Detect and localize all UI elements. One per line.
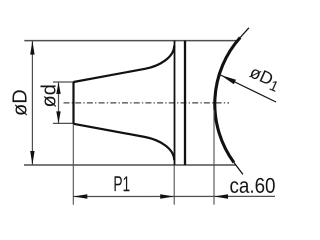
sphere tangent run-out bottom <box>234 163 243 175</box>
arrowhead oD top <box>30 41 34 55</box>
extension line ca.60 (sphere vertex) <box>213 110 215 205</box>
extension tick od top <box>53 81 74 83</box>
arrowhead P1 left <box>73 194 87 198</box>
arrowhead od top <box>56 82 60 94</box>
dimension line oD <box>31 41 33 165</box>
outline: shank left end face <box>72 82 74 124</box>
arrowhead P1 right <box>160 194 174 198</box>
svg-text:ca.60: ca.60 <box>229 174 275 198</box>
arrowhead leader oD1 <box>221 75 237 84</box>
outline: concave spherical face oD1 <box>215 38 240 163</box>
outline: top flat of head (diameter oD extent) <box>24 40 238 42</box>
arrowhead od bottom <box>56 111 60 123</box>
extension line P1 left <box>72 124 74 205</box>
dimension line od <box>58 82 60 123</box>
svg-text:P1: P1 <box>113 171 130 196</box>
outline: head right face <box>184 41 186 165</box>
svg-text:øD1: øD1 <box>245 62 283 96</box>
arrowhead ca.60 <box>214 194 228 198</box>
dimension line P1 / ca.60 <box>73 195 275 197</box>
centerline (axis) <box>64 102 230 104</box>
extension line P1 right <box>173 165 175 205</box>
leader line oD1 <box>221 75 277 102</box>
svg-text:ød: ød <box>39 84 61 107</box>
outline: shank bottom taper with bell fillet <box>74 124 175 161</box>
outline: shank top taper with bell fillet <box>74 46 175 83</box>
svg-text:øD: øD <box>9 89 31 116</box>
outline: head left face <box>174 41 176 165</box>
extension tick od bottom <box>53 122 74 124</box>
sphere tangent run-out top <box>240 28 249 38</box>
arrowhead oD bottom <box>30 151 34 165</box>
outline: bottom flat of head <box>24 164 236 166</box>
